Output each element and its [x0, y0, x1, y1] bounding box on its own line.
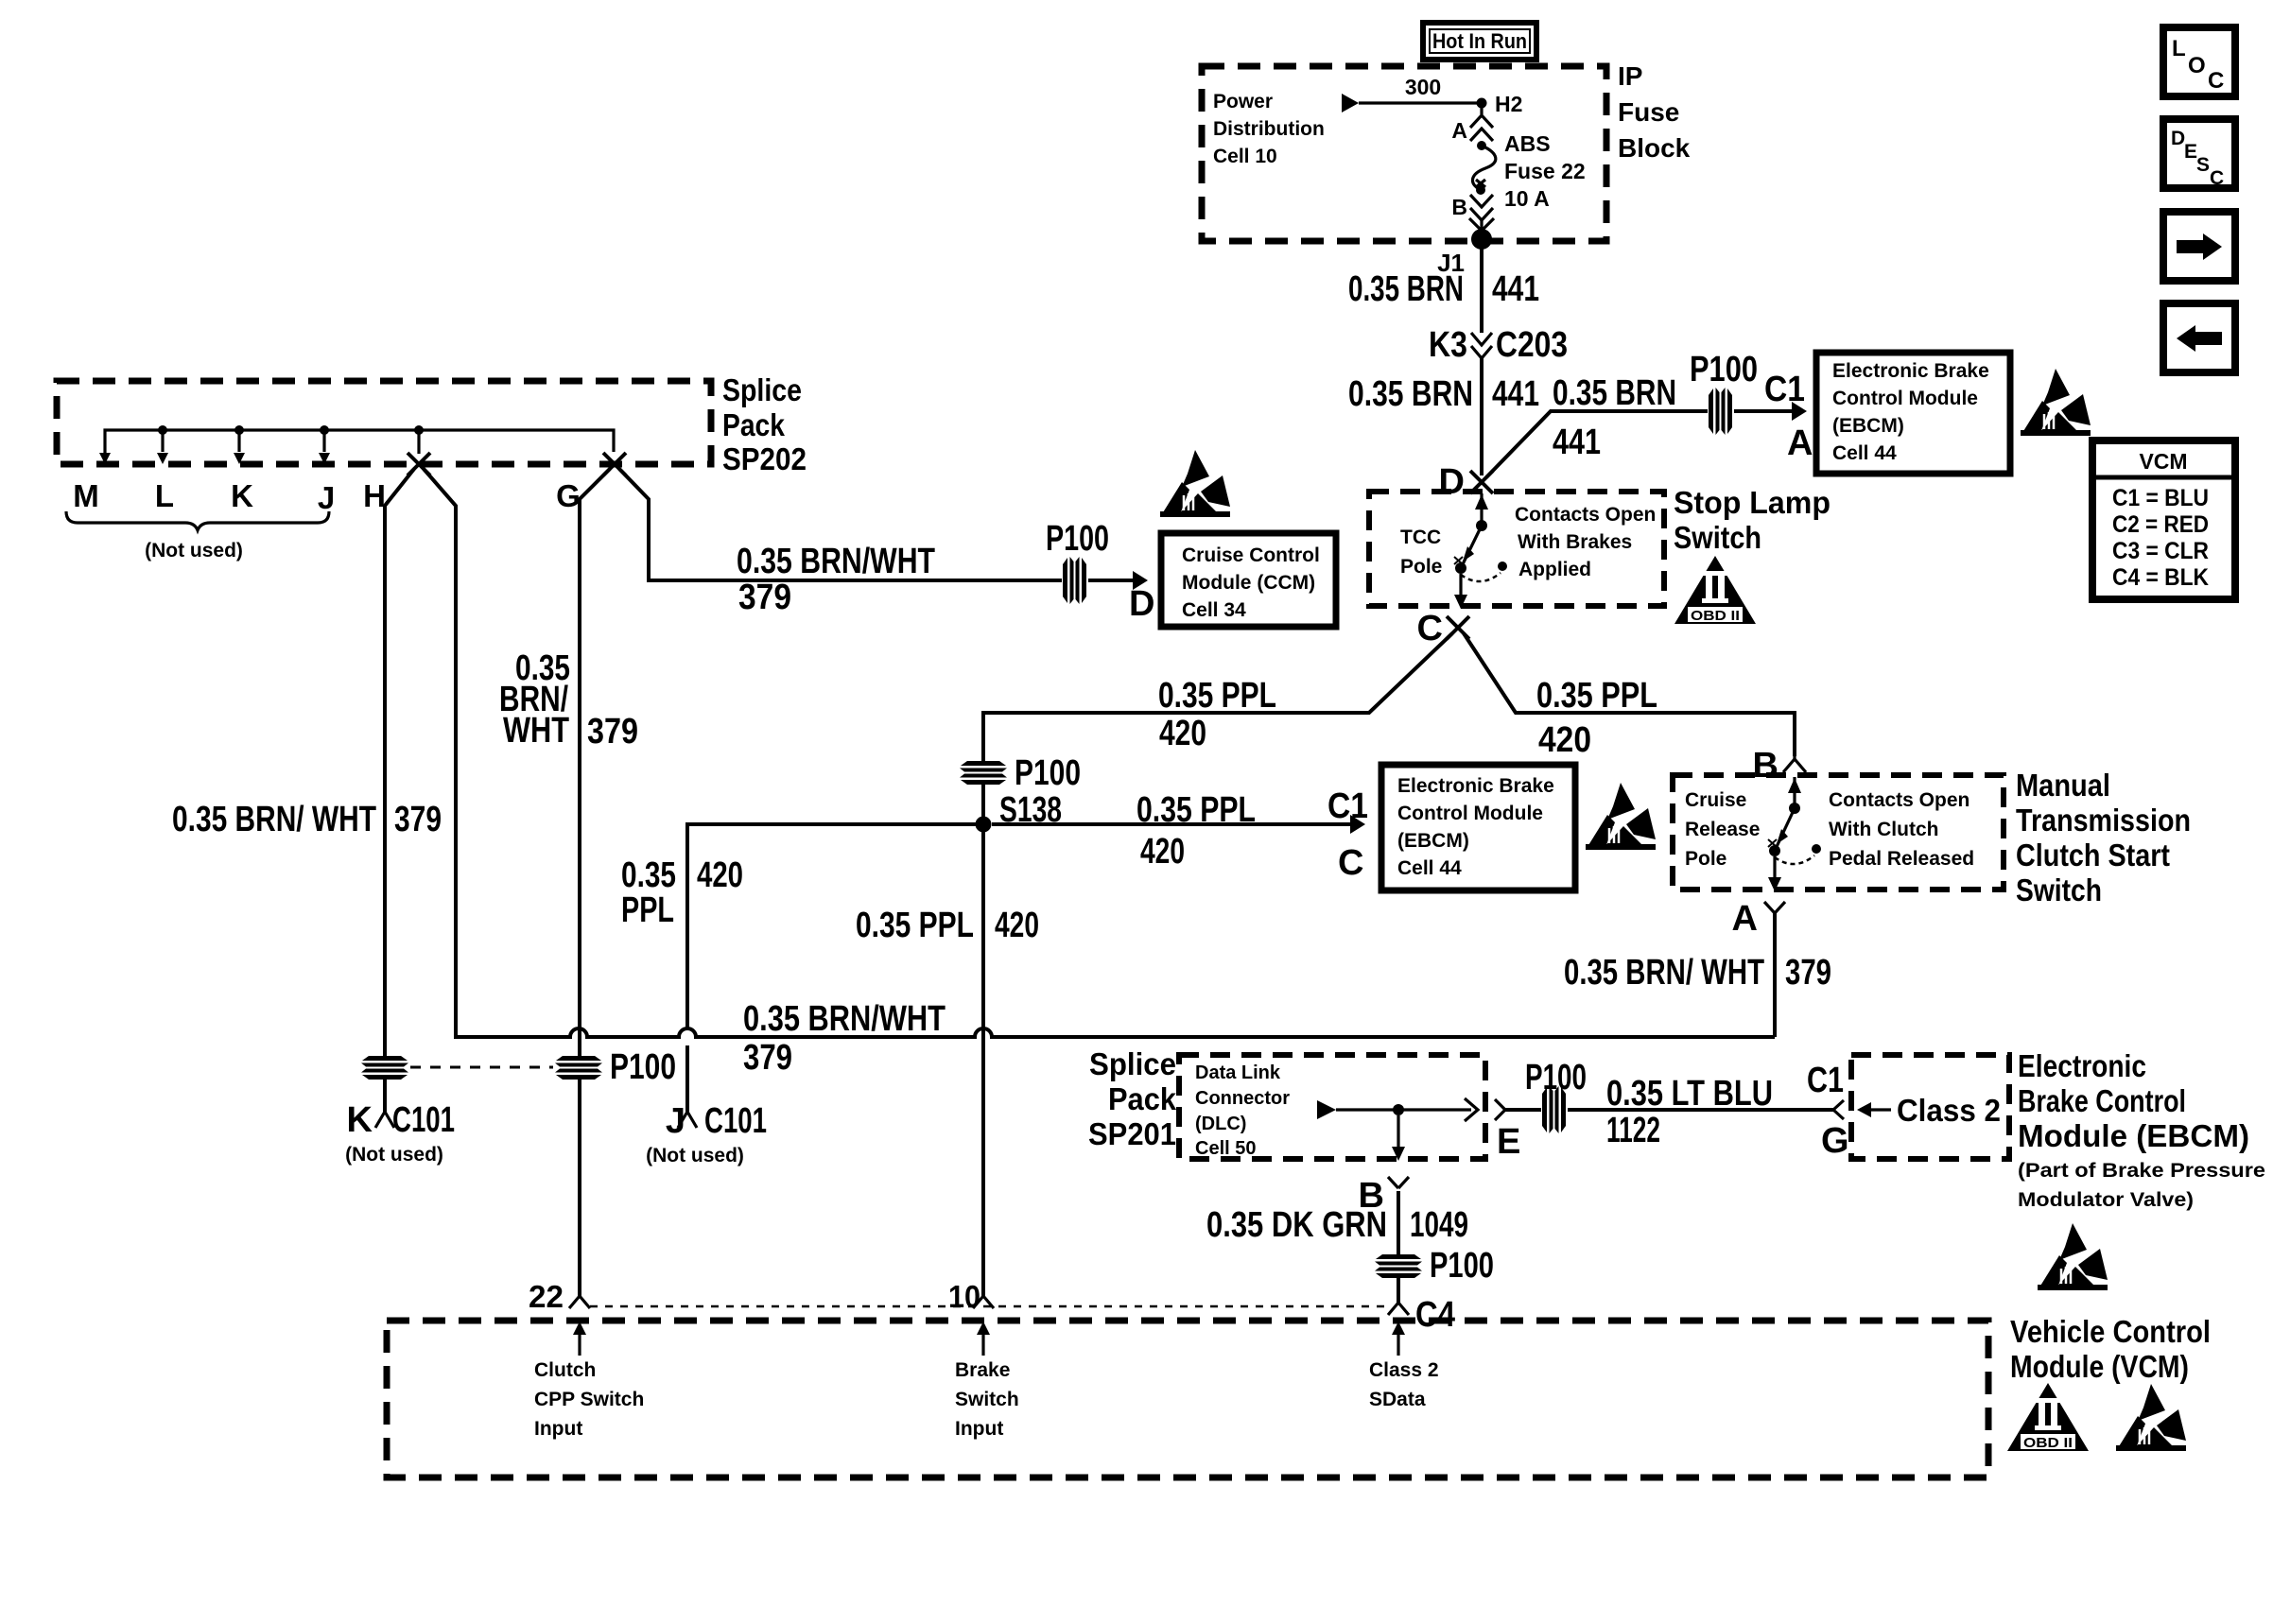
svg-text:0.35 BRN: 0.35 BRN [1348, 269, 1464, 309]
ESD symbol center EBCM [1586, 783, 1656, 850]
svg-text:1122: 1122 [1606, 1111, 1660, 1150]
pin C1 C of EBCM center [1327, 786, 1368, 883]
svg-text:P100: P100 [610, 1047, 676, 1087]
svg-text:With Brakes: With Brakes [1518, 531, 1632, 553]
label Manual Transmission Clutch Start Switch [2016, 768, 2191, 907]
svg-text:P100: P100 [1046, 519, 1109, 559]
svg-text:C1: C1 [1807, 1061, 1844, 1100]
svg-text:C1: C1 [1327, 786, 1368, 826]
label Contacts Open With Brakes Applied [1515, 504, 1656, 580]
svg-text:Pole: Pole [1400, 556, 1442, 578]
svg-text:0.35 DK GRN: 0.35 DK GRN [1206, 1205, 1387, 1245]
wire 300 from Power Distribution [1342, 75, 1482, 112]
svg-text:420: 420 [1538, 720, 1591, 760]
svg-text:Splice: Splice [722, 372, 802, 407]
Splice Pack SP202 dashed box [57, 381, 711, 464]
svg-text:P100: P100 [1525, 1058, 1587, 1097]
svg-text:P100: P100 [1690, 350, 1758, 389]
splice node L [157, 425, 168, 464]
svg-text:Cruise Control: Cruise Control [1182, 544, 1320, 566]
svg-text:Input: Input [955, 1418, 1003, 1440]
connector P100 above S138 [960, 753, 1081, 793]
svg-text:441: 441 [1492, 374, 1539, 414]
svg-text:Module (EBCM): Module (EBCM) [2018, 1118, 2249, 1153]
DLC node [1393, 1104, 1404, 1115]
svg-text:0.35 PPL: 0.35 PPL [1536, 676, 1657, 716]
svg-text:Cell 34: Cell 34 [1182, 599, 1246, 621]
connector J C101 not used [646, 1101, 767, 1166]
connector C4 to VCM [1388, 1276, 1455, 1335]
Class 2 arrow [1857, 1093, 2001, 1128]
svg-text:CPP Switch: CPP Switch [534, 1389, 644, 1410]
svg-text:Brake: Brake [955, 1359, 1010, 1381]
node D splice [1439, 462, 1493, 502]
svg-text:L: L [2172, 36, 2186, 61]
clutch switch blade cruise release pole [1768, 777, 1821, 891]
svg-text:H: H [363, 478, 386, 513]
svg-text:379: 379 [743, 1038, 792, 1078]
svg-text:Switch: Switch [955, 1389, 1019, 1410]
wire 0.35 BRN/WHT 379 G to VCM pin 22 [499, 469, 638, 1296]
node S138 splice [976, 790, 1063, 833]
wire 0.35 BRN 441 J1 to C203 [1348, 239, 1539, 333]
svg-text:WHT: WHT [503, 711, 569, 751]
svg-text:D: D [1439, 462, 1465, 502]
svg-text:Control Module: Control Module [1832, 388, 1978, 409]
VCM pin 22 arrow Clutch CPP Switch Input [534, 1322, 644, 1440]
svg-text:C4: C4 [1415, 1295, 1455, 1335]
svg-text:0.35 BRN: 0.35 BRN [1348, 374, 1473, 414]
svg-text:Clutch Start: Clutch Start [2016, 838, 2170, 872]
svg-text:C101: C101 [392, 1100, 455, 1140]
svg-text:C: C [1338, 843, 1363, 883]
wire 0.35 BRN 441 D to EBCM A [1486, 373, 1807, 477]
terminal X at G [603, 453, 626, 475]
IP Fuse Block dashed box [1202, 66, 1606, 241]
svg-text:A: A [1732, 899, 1758, 939]
Vehicle Control Module VCM dashed box [387, 1321, 1988, 1477]
svg-text:Cell 10: Cell 10 [1213, 146, 1277, 167]
svg-text:L: L [155, 478, 174, 513]
svg-text:Class 2: Class 2 [1369, 1359, 1439, 1381]
label TCC Pole [1400, 527, 1442, 578]
pin C1 A of EBCM [1764, 370, 1813, 463]
svg-text:Stop Lamp: Stop Lamp [1674, 485, 1831, 520]
svg-text:(Not used): (Not used) [345, 1144, 443, 1166]
svg-text:Electronic: Electronic [2018, 1048, 2146, 1083]
svg-text:420: 420 [995, 906, 1039, 945]
wire 0.35 BRN/WHT 379 H to clutch A long horizontal [172, 469, 1775, 1078]
svg-text:C101: C101 [704, 1101, 767, 1141]
svg-text:P100: P100 [1430, 1246, 1494, 1286]
right arrow navigation box [2163, 212, 2235, 281]
svg-text:Pack: Pack [1108, 1081, 1177, 1116]
svg-text:0.35 BRN/WHT: 0.35 BRN/WHT [743, 999, 946, 1039]
P100 dashed link [410, 1066, 553, 1069]
svg-text:G: G [556, 478, 581, 513]
svg-text:(Not used): (Not used) [646, 1145, 744, 1166]
pin labels M L K J H G [73, 478, 581, 515]
svg-text:Cruise: Cruise [1685, 789, 1746, 811]
ESD symbol CCM [1160, 450, 1230, 517]
ESD symbol VCM [2116, 1384, 2186, 1451]
label Stop Lamp Switch [1674, 485, 1831, 555]
svg-text:0.35 PPL: 0.35 PPL [1158, 676, 1276, 716]
Manual Transmission Clutch Start Switch dashed box [1673, 775, 2004, 890]
svg-text:Switch: Switch [1674, 520, 1761, 555]
stop lamp switch blade TCC pole [1454, 520, 1507, 609]
svg-text:C4 = BLK: C4 = BLK [2112, 564, 2209, 591]
svg-text:379: 379 [1785, 953, 1831, 993]
label Vehicle Control Module VCM [2010, 1314, 2211, 1384]
label Cruise Release Pole [1685, 789, 1760, 870]
svg-text:A: A [1451, 118, 1467, 143]
splice node H [414, 425, 424, 454]
svg-text:Power: Power [1213, 91, 1273, 112]
svg-text:Cell 44: Cell 44 [1397, 857, 1462, 879]
svg-text:C2 = RED: C2 = RED [2112, 511, 2209, 538]
svg-text:Input: Input [534, 1418, 582, 1440]
svg-text:Switch: Switch [2016, 872, 2102, 907]
svg-text:ABS: ABS [1504, 131, 1551, 156]
svg-text:Electronic Brake: Electronic Brake [1832, 360, 1989, 382]
left arrow navigation box [2163, 303, 2235, 372]
svg-text:Pedal Released: Pedal Released [1829, 848, 1974, 870]
Stop Lamp Switch dashed box [1369, 492, 1664, 606]
terminal X at H [408, 453, 430, 475]
wire 0.35 BRN 441 C203 to D [1348, 358, 1539, 475]
svg-text:VCM: VCM [2139, 449, 2187, 474]
svg-text:With Clutch: With Clutch [1829, 819, 1938, 840]
VCM pin 10 arrow Brake Switch Input [955, 1322, 1019, 1440]
splice bus SP202 [105, 430, 614, 461]
fuse terminal A [1451, 103, 1493, 143]
Hot In Run power label box [1423, 23, 1536, 60]
svg-text:10: 10 [948, 1279, 980, 1314]
connector pin 22 [529, 1279, 590, 1314]
svg-text:H2: H2 [1495, 92, 1522, 116]
svg-text:C: C [1417, 609, 1443, 648]
svg-text:Cell 44: Cell 44 [1832, 442, 1897, 464]
connector P100 on DK GRN wire [1375, 1246, 1494, 1286]
svg-text:0.35 LT BLU: 0.35 LT BLU [1606, 1074, 1773, 1114]
connector P100 on K C101 wire [361, 1056, 408, 1080]
svg-text:Cell 50: Cell 50 [1195, 1138, 1256, 1159]
svg-text:Control Module: Control Module [1397, 803, 1543, 824]
svg-text:O: O [2188, 53, 2206, 78]
svg-text:C: C [2208, 68, 2224, 94]
svg-text:Electronic Brake: Electronic Brake [1397, 775, 1554, 797]
svg-text:Release: Release [1685, 819, 1760, 840]
label Data Link Connector DLC Cell 50 [1195, 1063, 1290, 1159]
svg-text:(EBCM): (EBCM) [1832, 415, 1904, 437]
svg-text:D: D [2171, 128, 2185, 149]
splice node K [234, 425, 245, 464]
svg-text:Module (CCM): Module (CCM) [1182, 572, 1315, 594]
svg-text:C203: C203 [1496, 325, 1568, 365]
wire 0.35 DK GRN 1049 [1206, 1191, 1468, 1255]
svg-text:300: 300 [1405, 75, 1441, 99]
connector B below DLC [1359, 1176, 1409, 1216]
wire 0.35 PPL 420 C to clutch switch B [1464, 633, 1795, 760]
svg-text:K3: K3 [1429, 325, 1467, 365]
splice node J [319, 425, 330, 464]
svg-text:G: G [1821, 1121, 1849, 1161]
svg-text:420: 420 [1140, 832, 1185, 872]
svg-text:1049: 1049 [1410, 1205, 1468, 1245]
OBD II symbol VCM [2007, 1383, 2089, 1451]
svg-text:379: 379 [394, 800, 442, 839]
connector C203 pin K3 [1429, 325, 1568, 365]
DLC branch down arrow [1392, 1115, 1405, 1161]
svg-text:A: A [1787, 423, 1813, 463]
connector pin 10 [948, 1279, 994, 1314]
svg-text:TCC: TCC [1400, 527, 1441, 548]
svg-text:(Not used): (Not used) [145, 540, 243, 561]
label IP Fuse Block [1618, 61, 1691, 163]
label Electronic Brake Control Module EBCM right [2018, 1048, 2265, 1211]
label Splice Pack SP202 [722, 372, 807, 476]
svg-text:B: B [1451, 195, 1467, 219]
svg-text:420: 420 [1159, 714, 1206, 753]
wire 0.35 BRN/WHT 379 G to CCM D [619, 469, 1148, 617]
svg-text:Brake Control: Brake Control [2018, 1083, 2186, 1118]
fuse terminal B [1451, 195, 1494, 239]
svg-text:379: 379 [587, 712, 638, 752]
svg-text:Data Link: Data Link [1195, 1063, 1281, 1083]
svg-text:420: 420 [697, 855, 743, 895]
label Splice Pack SP201 [1088, 1046, 1177, 1151]
svg-text:K: K [231, 478, 253, 513]
module Electronic Brake Control Module EBCM center [1381, 765, 1575, 890]
svg-text:0.35 BRN/ WHT: 0.35 BRN/ WHT [1564, 953, 1764, 993]
svg-text:Class 2: Class 2 [1897, 1093, 2001, 1128]
connector A clutch switch [1732, 899, 1785, 939]
DESC navigation box [2163, 119, 2235, 189]
fuse ABS Fuse 22 10 A [1472, 131, 1585, 211]
svg-text:E: E [1497, 1122, 1520, 1162]
splice arrow M [99, 453, 111, 464]
connector P100 on CCM wire [1046, 519, 1109, 604]
connector E DLC [1495, 1099, 1520, 1162]
svg-text:Clutch: Clutch [534, 1359, 596, 1381]
svg-text:C3 = CLR: C3 = CLR [2112, 538, 2209, 564]
svg-text:Manual: Manual [2016, 768, 2110, 803]
wire 0.35 LT BLU 1122 E to EBCM G [1505, 1074, 1833, 1150]
svg-text:Pole: Pole [1685, 848, 1726, 870]
svg-text:0.35 PPL: 0.35 PPL [856, 906, 974, 945]
svg-text:E: E [2184, 141, 2197, 163]
svg-text:0.35 BRN/ WHT: 0.35 BRN/ WHT [172, 800, 376, 839]
svg-text:J: J [666, 1101, 685, 1141]
svg-text:Fuse 22: Fuse 22 [1504, 159, 1586, 183]
svg-text:0.35 PPL: 0.35 PPL [1136, 790, 1256, 830]
svg-text:SData: SData [1369, 1389, 1426, 1410]
node C splice [1417, 609, 1469, 648]
OBD II symbol stop lamp switch [1674, 556, 1756, 624]
svg-text:P100: P100 [1015, 753, 1081, 793]
svg-text:22: 22 [529, 1279, 564, 1314]
svg-text:SP201: SP201 [1088, 1116, 1176, 1151]
module Electronic Brake Control Module EBCM top [1816, 353, 2010, 474]
svg-text:S: S [2196, 154, 2210, 176]
wire H to K C101 [385, 469, 414, 1112]
VCM pin C4 arrow Class 2 SData [1369, 1322, 1439, 1410]
node H2 [1477, 92, 1523, 116]
module Electronic Brake Control Module right dashed box [1851, 1055, 2009, 1159]
svg-text:441: 441 [1492, 269, 1539, 309]
svg-text:C1: C1 [1764, 370, 1805, 409]
svg-text:Contacts Open: Contacts Open [1829, 789, 1969, 811]
svg-text:Block: Block [1618, 133, 1691, 163]
connector P100 on LT BLU wire [1525, 1058, 1587, 1133]
svg-text:PPL: PPL [621, 890, 674, 930]
connector P100 on wire 441 [1690, 350, 1758, 435]
svg-text:J: J [318, 480, 335, 515]
svg-text:Fuse: Fuse [1618, 97, 1679, 127]
svg-text:IP: IP [1618, 61, 1642, 91]
svg-text:10 A: 10 A [1504, 186, 1550, 211]
module Cruise Control Module CCM [1161, 533, 1336, 627]
svg-text:M: M [73, 478, 99, 513]
wire P100 to S138 [981, 783, 985, 824]
DLC internal wire [1317, 1098, 1478, 1121]
svg-text:B: B [1753, 746, 1778, 786]
svg-text:D: D [1129, 584, 1154, 624]
VCM connector color table [2092, 441, 2235, 599]
svg-text:SP202: SP202 [722, 441, 807, 476]
svg-text:C: C [2210, 167, 2224, 189]
connector P100 on pin22 wire [555, 1047, 676, 1087]
wire 0.35 PPL 420 C to S138 [983, 633, 1452, 762]
connector B clutch switch [1753, 746, 1806, 786]
label Contacts Open With Clutch Pedal Released [1829, 789, 1974, 870]
svg-text:(EBCM): (EBCM) [1397, 830, 1469, 852]
svg-text:K: K [347, 1100, 373, 1140]
svg-text:Pack: Pack [722, 407, 786, 442]
svg-text:Module (VCM): Module (VCM) [2010, 1349, 2189, 1384]
Data Link Connector DLC dashed box [1179, 1055, 1485, 1159]
ESD symbol right EBCM [2038, 1223, 2108, 1290]
ESD symbol top EBCM [2021, 369, 2091, 436]
wire 0.35 PPL 420 S138 to J C101 [621, 824, 976, 1112]
svg-text:Transmission: Transmission [2016, 803, 2191, 838]
svg-text:Applied: Applied [1518, 559, 1591, 580]
connector K C101 not used [345, 1100, 455, 1166]
svg-text:(DLC): (DLC) [1195, 1114, 1246, 1134]
svg-text:Splice: Splice [1089, 1046, 1176, 1081]
svg-text:Contacts Open: Contacts Open [1515, 504, 1656, 526]
svg-text:Vehicle Control: Vehicle Control [2010, 1314, 2211, 1349]
svg-text:Distribution: Distribution [1213, 118, 1325, 140]
svg-text:441: 441 [1553, 423, 1601, 462]
node J1 [1437, 229, 1492, 277]
wire 0.35 BRN/WHT 379 clutch A down [1564, 913, 1831, 1037]
svg-text:Hot In Run: Hot In Run [1432, 29, 1527, 53]
connector C1 G right EBCM [1807, 1061, 1849, 1161]
svg-text:379: 379 [738, 578, 791, 617]
label Power Distribution Cell 10 [1213, 91, 1325, 167]
wire 0.35 PPL 420 S138 to EBCM C [992, 790, 1365, 872]
brace not used M-J [66, 511, 329, 530]
svg-text:0.35 BRN/WHT: 0.35 BRN/WHT [737, 542, 935, 581]
svg-text:(Part of Brake Pressure: (Part of Brake Pressure [2018, 1160, 2265, 1182]
svg-text:C1 = BLU: C1 = BLU [2112, 485, 2209, 511]
svg-text:0.35 BRN: 0.35 BRN [1553, 373, 1676, 413]
svg-text:Connector: Connector [1195, 1088, 1290, 1109]
svg-text:Modulator Valve): Modulator Valve) [2018, 1189, 2194, 1211]
wire 0.35 PPL 420 S138 to VCM pin 10 [856, 832, 1039, 1296]
LOC navigation box [2163, 27, 2235, 96]
fine dashed line pins 22 10 C4 [590, 1305, 1387, 1308]
wire D to stop lamp switch with up arrow [1475, 493, 1488, 526]
svg-text:0.35: 0.35 [621, 855, 676, 895]
